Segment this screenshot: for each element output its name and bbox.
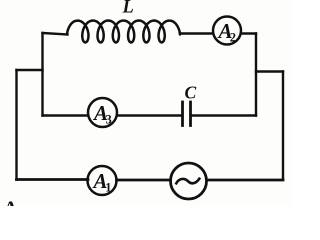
- wire A3 to capacitor: [117, 114, 182, 116]
- wire right stub: [256, 70, 283, 72]
- svg-text:3: 3: [106, 112, 112, 126]
- wire bottom branch left segment: [17, 178, 89, 181]
- wire top branch left segment: [43, 33, 68, 35]
- wire A1 to source: [117, 179, 171, 182]
- svg-text:A: A: [3, 198, 18, 207]
- wire coil to A2: [180, 32, 213, 34]
- wire capacitor to right vertical: [191, 114, 256, 116]
- wire middle branch left segment: [43, 114, 89, 116]
- wire A2 to top-right corner: [241, 32, 256, 34]
- svg-text:2: 2: [230, 30, 236, 44]
- inductor L coil: [67, 21, 180, 43]
- wire outer-right vertical: [282, 72, 284, 180]
- svg-text:1: 1: [105, 180, 111, 194]
- svg-text:L: L: [122, 0, 134, 17]
- AC source: [171, 163, 207, 199]
- wire source to right: [207, 179, 283, 182]
- svg-text:C: C: [185, 83, 197, 103]
- capacitor C plates: [181, 102, 184, 126]
- ammeter A3: [88, 98, 117, 127]
- wire inner-left vertical: [41, 33, 43, 116]
- wire outer-left vertical: [15, 70, 17, 180]
- wire inner-right vertical: [255, 34, 257, 116]
- ammeter A1: [88, 166, 117, 195]
- wire left stub: [17, 69, 43, 71]
- ammeter A2: [213, 17, 241, 45]
